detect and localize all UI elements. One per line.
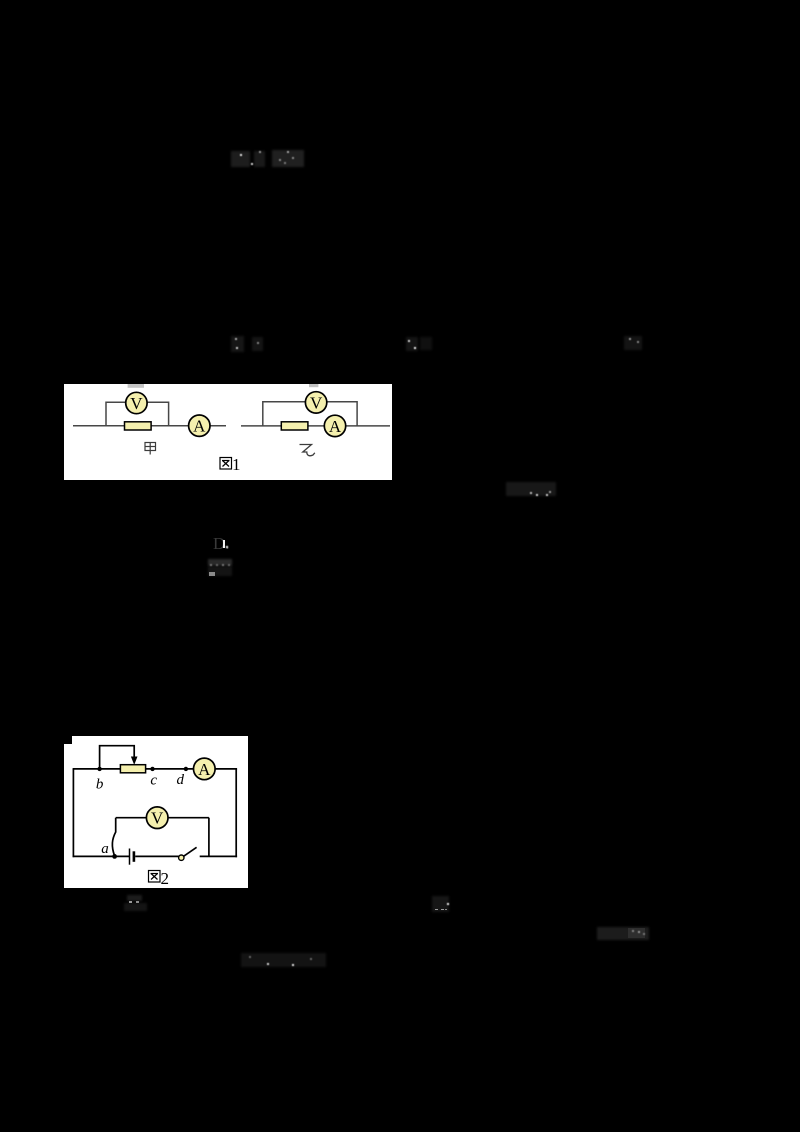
svg-text:2: 2 — [161, 869, 170, 888]
svg-text:a: a — [101, 841, 109, 857]
svg-text:A: A — [198, 760, 211, 779]
svg-text:V: V — [130, 394, 143, 413]
svg-text:c: c — [150, 773, 157, 789]
svg-text:A: A — [329, 417, 342, 436]
svg-text:V: V — [310, 393, 323, 412]
svg-text:b: b — [96, 777, 104, 793]
svg-text:V: V — [151, 809, 164, 828]
svg-text:1: 1 — [232, 455, 241, 474]
svg-text:d: d — [176, 772, 184, 788]
svg-text:A: A — [193, 417, 206, 436]
